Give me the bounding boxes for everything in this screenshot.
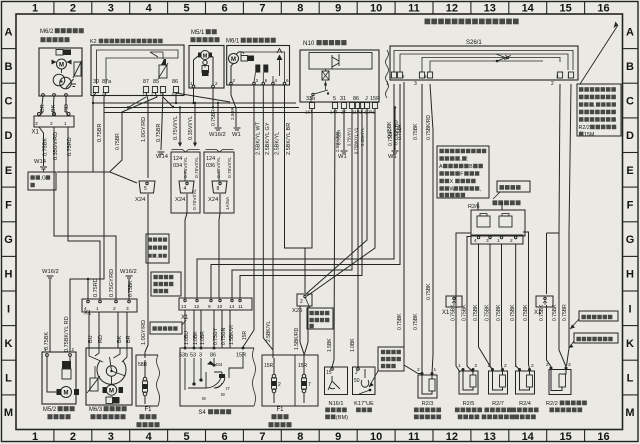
combination switch S4 box	[180, 348, 256, 406]
heater R2/5 pins	[462, 368, 465, 371]
K2 pin diagonal wires	[110, 93, 177, 172]
arrow to grid corner	[580, 22, 618, 85]
control unit N16/1 contact	[326, 368, 340, 390]
note box connector pin order	[151, 272, 181, 296]
wire to ground W1 mid	[176, 93, 241, 138]
heater R2/2 pins	[550, 367, 553, 370]
combination relay N10 contact	[311, 90, 329, 102]
combination switch S4 mechanism	[185, 352, 243, 390]
relay K17 contacts	[354, 368, 371, 395]
bus junction diagonals	[127, 97, 174, 109]
motor M6/2 park-switch	[53, 74, 76, 89]
staircase wire 4	[240, 109, 362, 299]
connector X26	[292, 294, 312, 314]
relay module K2 pin boxes	[92, 87, 179, 97]
note box wavy-line meaning	[369, 347, 404, 387]
title heated washer system thermo switch	[425, 19, 519, 25]
wire x515	[510, 244, 519, 370]
relay module K2 box	[91, 45, 184, 96]
wire x490	[485, 244, 493, 370]
wire into 124 034	[172, 106, 200, 152]
connector X24-8	[208, 181, 231, 210]
control unit N16/1 box	[325, 367, 348, 395]
control module 124 036 box	[204, 152, 234, 213]
long wire to R2/3 pin1	[413, 84, 422, 374]
M6/1 pin2 drop wire	[230, 85, 236, 127]
heater R2/2 box	[549, 370, 571, 395]
connector X1 left-bottom	[82, 299, 137, 317]
wire U-loop left b	[462, 237, 474, 373]
note box component codes	[437, 146, 489, 198]
thermo switch S26/1 pin group left	[386, 72, 405, 87]
wiper motor M6/3 fan	[89, 348, 127, 384]
wires X1 centre to switch S4	[184, 310, 235, 348]
washer pump M5/1 label	[191, 29, 217, 36]
washer pump M5/2 element	[62, 361, 71, 379]
staircase wire 3	[232, 109, 352, 299]
note box wire colour code	[570, 311, 618, 329]
combination switch S4 position labels	[202, 362, 230, 401]
note box connector code	[150, 320, 186, 334]
washer pump M5/2 motor	[47, 356, 79, 398]
combination relay N10 pin labels	[306, 96, 380, 102]
bus horizontal 2	[104, 107, 299, 109]
heater R2/2 label	[546, 401, 587, 407]
relay module K2 label	[90, 39, 163, 45]
wire x501	[496, 244, 503, 370]
washer pump M5/1 box	[189, 46, 224, 89]
wire 0.75GY/RD from X1 down	[53, 127, 116, 299]
relay module K2 pin labels	[93, 79, 178, 85]
combination relay N10 inner box	[309, 53, 372, 70]
ground W16/2 left with wire to M5/2	[42, 269, 59, 352]
connector X1 top-left	[32, 113, 75, 136]
wiper motor M6/3 label	[89, 406, 127, 413]
connector X24-4	[175, 181, 198, 210]
wire 1.0GY/RD K2 to fuse F1	[141, 93, 148, 359]
wiper motor M6/1 pins	[230, 52, 289, 85]
thermo switch S26/1 box	[390, 46, 578, 80]
N10 pin drop wires	[327, 109, 358, 368]
wiper motor M6/3 resistor	[87, 366, 100, 393]
long wire to R2/3 pin2	[397, 82, 422, 374]
relay R2/6 pin row	[471, 235, 523, 244]
note box curve meaning	[305, 297, 333, 329]
heavy wire 2.5BK/YL GY	[263, 85, 273, 358]
wire U-loop right	[523, 232, 530, 370]
motor M6/2 box	[39, 48, 82, 96]
note box wire gauge code	[569, 333, 618, 348]
relay R2/6 box	[471, 202, 525, 236]
heater R2/3 box	[418, 375, 437, 398]
heavy wire 2.5BK/YL	[273, 85, 281, 350]
thermo switch S26/1 contacts	[496, 54, 511, 62]
wire into 124 036	[188, 102, 234, 152]
bus wires under relay K2	[57, 93, 137, 280]
wiper motor M6/3 box	[86, 348, 132, 405]
fusebox F1 left box	[136, 355, 160, 406]
heater R2/3 pins	[421, 372, 424, 375]
motor M6/2 pins + wires	[40, 94, 70, 113]
washer pump M5/1 pins	[190, 56, 218, 88]
heater R2/5 box	[459, 371, 478, 394]
wire X26 to fuse	[294, 306, 308, 358]
relay K17 box	[353, 367, 376, 395]
washer pump M5/1 motor	[198, 51, 212, 65]
relay module K2 coil	[150, 52, 168, 79]
washer pump M5/2 box	[42, 352, 76, 404]
note box model-variant	[146, 234, 169, 263]
fusebox F1 right fuse b	[298, 358, 311, 403]
combination relay N10 box	[300, 50, 379, 102]
wire 0.75RD from X1 down	[67, 127, 100, 299]
combination switch S4 pins	[179, 347, 246, 359]
wire 124 036 out to X1	[219, 194, 220, 298]
thermo switch S26/1 pin group right	[551, 72, 574, 87]
bus horizontal 1	[93, 102, 296, 104]
motor M6/2 limit resistor	[73, 60, 82, 78]
wire to ground W16/2 mid	[209, 102, 226, 138]
fusebox F1 left fuse	[138, 360, 148, 404]
heavy wire 2.5BK/YL BR	[285, 85, 313, 293]
motor M6/2 motor symbol	[52, 59, 72, 73]
wire via X1 to R2/2	[539, 233, 559, 367]
combination relay N10 label	[303, 40, 346, 47]
wires M6/2 to X1	[39, 112, 43, 116]
wire 0.75BK/YL RD M5/2 to X1	[64, 278, 89, 352]
washer pump M5/2 label	[43, 406, 75, 413]
wiper motor M6/3 motor	[103, 376, 124, 403]
wiper motor M6/1 label	[226, 38, 276, 45]
note box grid-reference	[577, 84, 621, 138]
fusebox F1 right box	[262, 355, 318, 406]
wiper motor M6/1 box	[227, 46, 290, 86]
connector X1 lower-left of R25	[442, 296, 462, 316]
thermo switch S26/1 nested wiring	[394, 51, 573, 73]
relay module K2 inner frame	[97, 50, 179, 84]
combination switch S4 label	[198, 409, 231, 416]
connector X1 centre	[179, 298, 252, 321]
note box ground G mark	[28, 172, 56, 190]
fusebox F1 right divider	[294, 355, 296, 406]
S26/1 right pin wires down	[552, 84, 571, 367]
connector X1 lower-right	[534, 296, 553, 316]
label one-way valve heater	[492, 192, 520, 205]
wire U-loop left a	[451, 233, 472, 372]
combination relay N10 coil	[322, 69, 329, 90]
staircase wire 1	[197, 84, 394, 298]
washer pump M5/2 pins	[44, 347, 75, 356]
note box component name	[497, 181, 530, 192]
grid row ticks	[2, 48, 17, 50]
heater R2/7 pins	[491, 368, 494, 371]
control module 124 034 box	[171, 152, 200, 213]
wire diag to R2/3 pin1	[426, 84, 433, 374]
wires X1 to M6/3	[88, 312, 132, 348]
page-break squiggle	[386, 50, 389, 98]
thermo switch S26/1 pin group mid	[414, 72, 433, 87]
heavy wire 2.5BK/YL WT	[242, 85, 262, 347]
N10 wires to connector X26	[306, 109, 375, 297]
combination relay N10 pin boxes	[305, 103, 378, 115]
washer pump M5/1 element	[202, 66, 209, 77]
bus horizontal 3	[104, 112, 375, 114]
M5/1 pin drop wires	[192, 88, 214, 109]
heater R2/7 box	[489, 371, 508, 394]
wiper motor M6/1 elements	[241, 49, 283, 77]
wiper motor M6/1 motor	[229, 52, 245, 83]
ground W1 right	[388, 106, 399, 160]
staircase wire 2	[211, 84, 400, 298]
connector X24-5	[135, 181, 155, 203]
heater R2/4 box	[516, 371, 535, 394]
wire 124 034 out to X1	[185, 194, 187, 298]
combination relay N10 transistor	[332, 54, 339, 69]
wire 0.75BR to ground W14	[34, 127, 49, 172]
heater R2/4 pins	[518, 368, 521, 371]
fusebox F1 right fuse a	[264, 358, 281, 403]
motor M6/2 label	[40, 28, 84, 35]
wire x478	[473, 244, 492, 370]
ground W16/2 right into X1 pin3	[120, 269, 137, 299]
